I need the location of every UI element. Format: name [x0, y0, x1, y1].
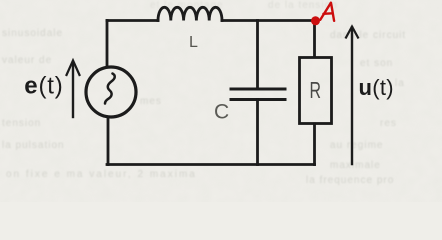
wire capacitor bottom lead — [256, 100, 259, 165]
svg-text:e(t): e(t) — [24, 73, 63, 100]
source sine squiggle — [105, 74, 115, 104]
source e(t) circle U1 — [86, 67, 136, 117]
svg-text:u(t): u(t) — [359, 75, 394, 100]
wire source bottom vertical — [107, 117, 110, 165]
node A label — [320, 3, 334, 21]
resistor R body — [300, 58, 332, 124]
wire resistor top lead — [313, 21, 316, 58]
wire left vertical — [106, 21, 109, 68]
svg-text:L: L — [189, 34, 198, 51]
wire top-left horizontal — [107, 19, 158, 22]
wire bottom horizontal — [107, 163, 315, 166]
capacitor C bottom plate — [231, 98, 285, 101]
inductor L — [158, 7, 222, 20]
arrow e(t) head — [67, 61, 80, 76]
arrow u(t) head — [346, 27, 358, 38]
svg-text:R: R — [310, 77, 322, 103]
svg-text:C: C — [214, 101, 229, 124]
wire resistor bottom lead — [313, 124, 316, 165]
node A dot — [311, 16, 320, 25]
arrow e(t) line — [72, 62, 74, 117]
capacitor C top plate — [231, 88, 285, 91]
wire top-right horizontal to node A — [222, 19, 314, 22]
wire capacitor top lead — [256, 21, 259, 89]
arrow u(t) line — [351, 28, 353, 165]
